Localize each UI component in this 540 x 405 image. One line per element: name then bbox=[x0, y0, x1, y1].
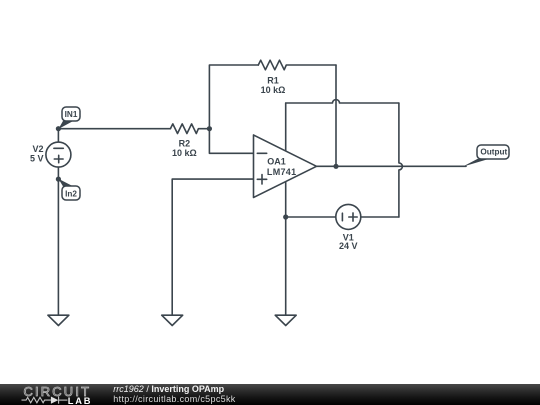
svg-text:24 V: 24 V bbox=[339, 241, 358, 251]
svg-text:Output: Output bbox=[480, 148, 507, 157]
svg-text:LAB: LAB bbox=[68, 396, 93, 405]
svg-text:R2: R2 bbox=[179, 139, 191, 149]
svg-text:In2: In2 bbox=[65, 190, 77, 199]
svg-text:V2: V2 bbox=[32, 144, 43, 154]
svg-text:LM741: LM741 bbox=[267, 167, 297, 177]
svg-text:IN1: IN1 bbox=[65, 110, 78, 119]
svg-text:5 V: 5 V bbox=[30, 154, 44, 164]
svg-text:OA1: OA1 bbox=[267, 157, 286, 167]
svg-text:10 kΩ: 10 kΩ bbox=[261, 85, 286, 95]
svg-text:10 kΩ: 10 kΩ bbox=[172, 148, 197, 158]
